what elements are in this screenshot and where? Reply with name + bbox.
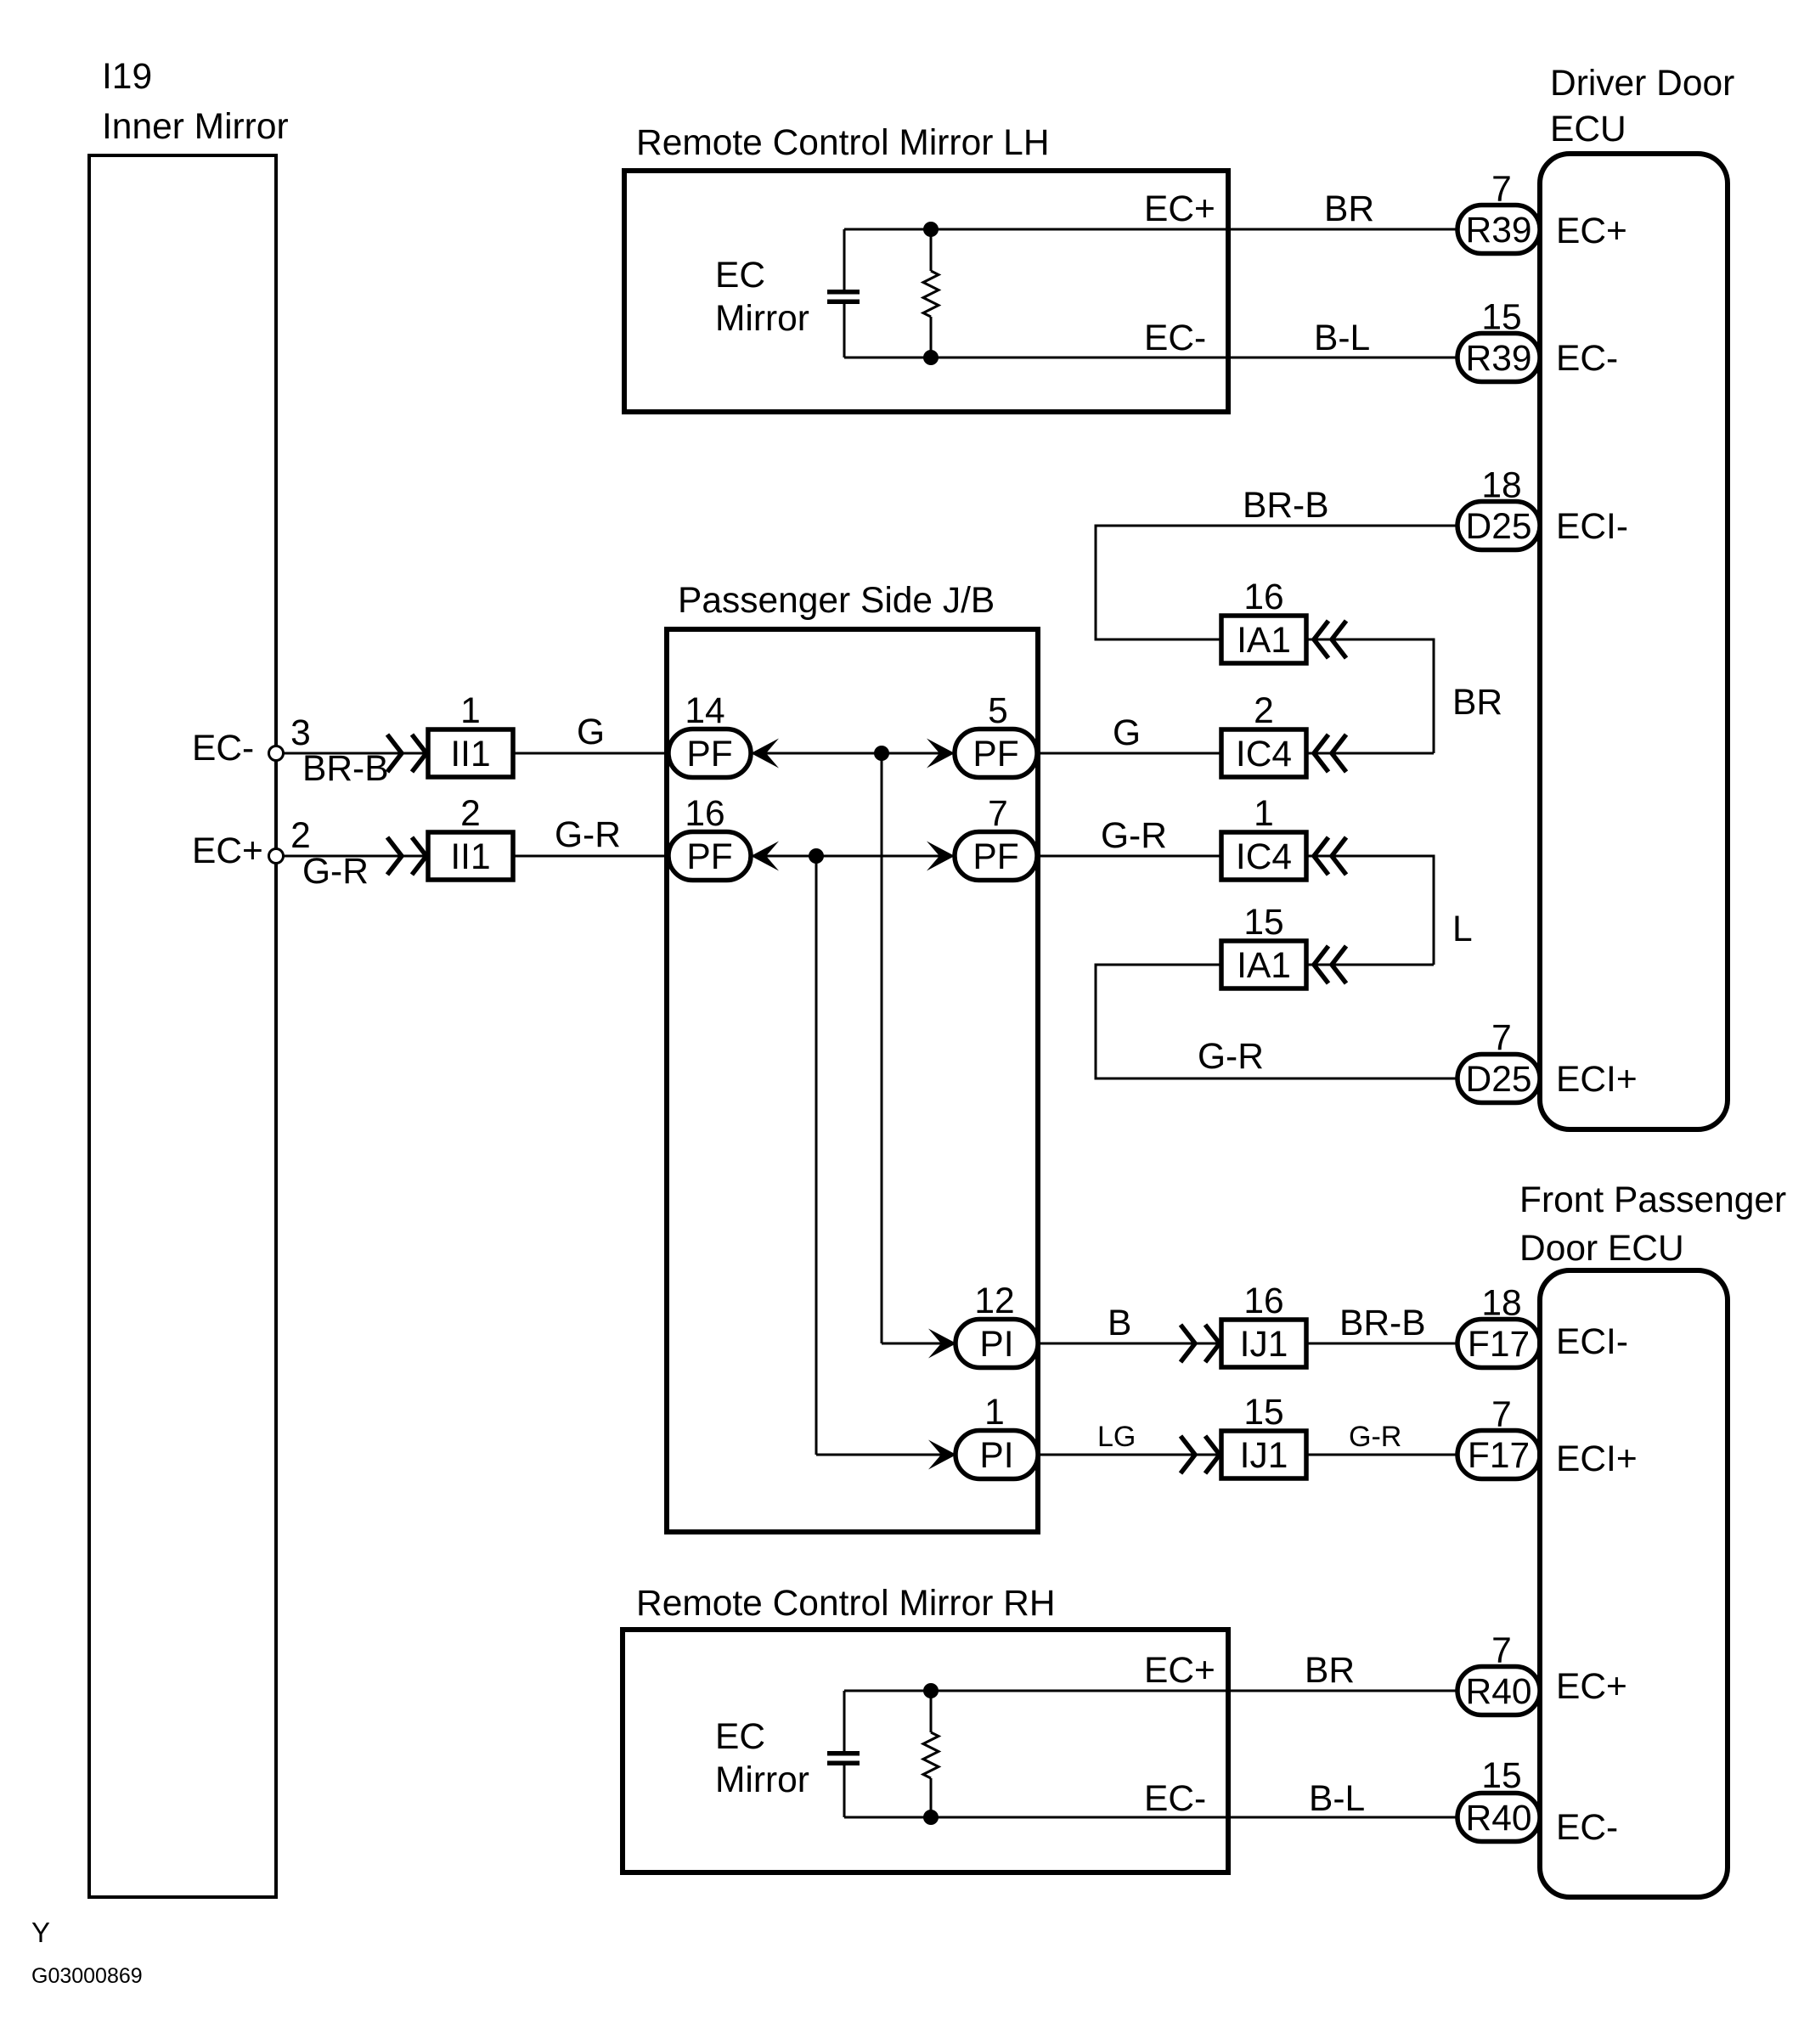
chevron IA1 pin 16 <box>1314 621 1346 658</box>
junction G wire <box>874 746 889 761</box>
wire EC+ LH to R39 pin 7 <box>844 228 1457 231</box>
wire PF16 to PF7 <box>751 855 955 858</box>
svg-text:EC+: EC+ <box>1144 189 1215 229</box>
connector F17 pin 18 <box>1457 1320 1540 1368</box>
wire junction G down to PI pin 12 <box>881 753 883 1343</box>
svg-text:Passenger Side J/B: Passenger Side J/B <box>678 581 995 621</box>
connector F17 pin 7 <box>1457 1431 1540 1479</box>
svg-text:15: 15 <box>1481 1756 1521 1796</box>
chevron IC4 pin 1 <box>1314 837 1346 875</box>
svg-text:Driver Door: Driver Door <box>1550 64 1734 104</box>
chevron II1 pin 1 <box>387 735 426 772</box>
chevron IC4 pin 2 <box>1314 735 1346 772</box>
inner mirror I19 box <box>89 155 276 1897</box>
svg-text:II1: II1 <box>450 735 490 774</box>
svg-text:B: B <box>1108 1304 1131 1343</box>
arrow at PF pin 7 <box>927 842 955 871</box>
svg-text:G-R: G-R <box>555 815 621 855</box>
connector II1 pin 1 <box>428 729 513 777</box>
wire IC4 pin 2 right <box>1306 752 1434 755</box>
wire EC- LH to R39 pin 15 <box>844 357 1457 359</box>
connector D25 pin 7 <box>1457 1055 1540 1103</box>
wire L from IC4 pin 1 to IA1 pin 15 <box>1306 856 1434 965</box>
junction LH EC+ <box>923 222 939 237</box>
svg-text:EC-: EC- <box>1556 1808 1618 1848</box>
svg-text:14: 14 <box>685 691 724 731</box>
svg-text:G-R: G-R <box>1349 1421 1401 1453</box>
connector R40 pin 7 <box>1457 1667 1540 1715</box>
wire to PI pin 12 <box>882 1343 956 1345</box>
connector IC4 pin 2 <box>1221 729 1306 777</box>
junction RH EC- <box>923 1810 939 1825</box>
chevron II1 pin 2 <box>387 837 426 875</box>
svg-text:IA1: IA1 <box>1237 621 1291 661</box>
connector PF pin 7 <box>955 832 1037 881</box>
svg-text:EC-: EC- <box>192 729 254 769</box>
capacitor C LH leads <box>843 229 846 290</box>
wire EC- inner mirror to PF pin 14 <box>284 752 668 755</box>
svg-text:EC+: EC+ <box>1556 211 1627 251</box>
wire junction G-R down to PI pin 1 <box>815 856 818 1455</box>
connector PI pin 1 <box>956 1431 1038 1479</box>
svg-text:B-L: B-L <box>1309 1779 1365 1819</box>
chevron IJ1 pin 16 <box>1181 1325 1220 1362</box>
connector IJ1 pin 16 <box>1221 1320 1306 1367</box>
passenger side J/B box <box>667 629 1038 1532</box>
svg-text:G: G <box>1113 713 1141 753</box>
capacitor C RH leads <box>843 1691 846 1751</box>
wire G-R PF7 to IC4 pin 1 <box>1037 855 1221 858</box>
svg-text:Remote Control Mirror RH: Remote Control Mirror RH <box>636 1584 1056 1624</box>
capacitor C RH plates <box>827 1751 860 1756</box>
svg-text:Y: Y <box>31 1917 50 1948</box>
svg-text:16: 16 <box>685 794 724 834</box>
svg-text:1: 1 <box>1254 794 1274 834</box>
svg-text:EC: EC <box>715 1717 765 1757</box>
capacitor C LH plates <box>827 290 860 295</box>
arrow at PI pin 12 <box>928 1329 956 1359</box>
svg-text:I19: I19 <box>102 57 152 97</box>
connector PF pin 16 <box>668 832 751 881</box>
wire G-R IJ1 to F17 pin 7 <box>1306 1454 1457 1456</box>
svg-text:1: 1 <box>460 691 481 731</box>
svg-text:PI: PI <box>979 1325 1013 1365</box>
svg-text:PF: PF <box>972 735 1018 774</box>
svg-text:G-R: G-R <box>1198 1037 1264 1077</box>
svg-text:IC4: IC4 <box>1236 837 1292 877</box>
svg-text:LG: LG <box>1097 1421 1136 1453</box>
connector II1 pin 2 <box>428 832 513 880</box>
svg-text:BR-B: BR-B <box>1243 486 1329 526</box>
svg-text:PI: PI <box>979 1436 1013 1476</box>
chevron IA1 pin 15 <box>1314 946 1346 983</box>
svg-text:IC4: IC4 <box>1236 735 1292 774</box>
svg-text:PF: PF <box>972 837 1018 877</box>
wire EC+ RH to R40 pin 7 <box>844 1690 1457 1692</box>
connector R39 pin 15 <box>1457 334 1540 382</box>
junction G-R wire <box>809 848 824 864</box>
svg-text:B-L: B-L <box>1314 318 1370 358</box>
connector R39 pin 7 <box>1457 206 1540 254</box>
svg-text:G03000869: G03000869 <box>31 1964 143 1988</box>
connector IA1 pin 15 <box>1221 941 1306 988</box>
svg-text:3: 3 <box>290 713 311 753</box>
svg-text:ECI+: ECI+ <box>1556 1439 1638 1479</box>
connector R40 pin 15 <box>1457 1793 1540 1842</box>
wire G-R from IA1 pin 15 to D25 pin 7 <box>1096 965 1457 1078</box>
svg-text:Door ECU: Door ECU <box>1519 1229 1684 1269</box>
wire LG PI1 to IJ1 pin 15 <box>1037 1454 1221 1456</box>
svg-text:Remote Control Mirror LH: Remote Control Mirror LH <box>636 123 1050 163</box>
arrow at PI pin 1 <box>928 1440 956 1470</box>
svg-text:EC+: EC+ <box>1556 1667 1627 1707</box>
svg-text:L: L <box>1452 909 1473 949</box>
svg-text:2: 2 <box>460 794 481 834</box>
svg-text:5: 5 <box>988 691 1008 731</box>
connector IC4 pin 1 <box>1221 832 1306 880</box>
driver door ECU box <box>1540 154 1728 1129</box>
svg-text:Inner Mirror: Inner Mirror <box>102 107 289 147</box>
wire BR-B IJ1 to F17 pin 18 <box>1306 1343 1457 1345</box>
resistor R LH <box>930 229 933 271</box>
svg-text:IJ1: IJ1 <box>1240 1325 1288 1365</box>
svg-text:PF: PF <box>686 735 732 774</box>
remote control mirror RH box <box>623 1630 1228 1872</box>
node EC- open circle <box>269 746 284 761</box>
arrow at PF pin 16 <box>751 842 779 871</box>
node EC+ open circle <box>269 849 284 864</box>
arrow at PF pin 14 <box>751 739 779 769</box>
connector PF pin 14 <box>668 729 751 778</box>
connector D25 pin 18 <box>1457 502 1540 550</box>
wire B PI12 to IJ1 pin 16 <box>1037 1343 1221 1345</box>
svg-text:R40: R40 <box>1466 1799 1532 1838</box>
wire BR-B from D25 pin 18 to IA1 pin 16 <box>1096 526 1457 639</box>
svg-text:1: 1 <box>984 1393 1005 1433</box>
resistor R RH <box>930 1691 933 1732</box>
svg-text:D25: D25 <box>1466 507 1532 547</box>
svg-text:EC-: EC- <box>1556 339 1618 379</box>
wire BR from IA1 pin 16 to IC4 pin 2 <box>1306 639 1434 753</box>
svg-text:EC-: EC- <box>1144 1779 1206 1819</box>
remote control mirror LH box <box>624 171 1228 412</box>
svg-text:ECI+: ECI+ <box>1556 1060 1638 1100</box>
arrow at PF pin 5 <box>927 739 955 769</box>
svg-text:PF: PF <box>686 837 732 877</box>
front passenger door ECU box <box>1540 1270 1728 1897</box>
svg-text:IJ1: IJ1 <box>1240 1436 1288 1476</box>
wire to PI pin 1 <box>816 1454 956 1456</box>
svg-text:F17: F17 <box>1468 1436 1530 1476</box>
svg-text:G: G <box>577 712 605 752</box>
svg-text:Front Passenger: Front Passenger <box>1519 1180 1786 1220</box>
svg-text:BR: BR <box>1324 189 1374 229</box>
svg-text:G-R: G-R <box>302 852 369 892</box>
svg-text:7: 7 <box>988 794 1008 834</box>
svg-text:2: 2 <box>290 816 311 856</box>
svg-text:BR: BR <box>1452 683 1502 723</box>
svg-text:ECI-: ECI- <box>1556 1322 1628 1362</box>
svg-text:Mirror: Mirror <box>715 1760 809 1800</box>
connector IJ1 pin 15 <box>1221 1431 1306 1478</box>
chevron IJ1 pin 15 <box>1181 1436 1220 1473</box>
svg-text:EC+: EC+ <box>192 831 263 871</box>
svg-text:16: 16 <box>1243 1281 1283 1321</box>
svg-text:Mirror: Mirror <box>715 299 809 339</box>
svg-text:16: 16 <box>1243 577 1283 617</box>
svg-text:15: 15 <box>1243 1393 1283 1433</box>
svg-text:BR-B: BR-B <box>302 749 389 789</box>
svg-text:EC+: EC+ <box>1144 1651 1215 1691</box>
wire EC- RH to R40 pin 15 <box>844 1816 1457 1819</box>
svg-text:F17: F17 <box>1468 1325 1530 1365</box>
svg-text:IA1: IA1 <box>1237 946 1291 986</box>
svg-text:G-R: G-R <box>1101 816 1167 856</box>
connector PF pin 5 <box>955 729 1037 778</box>
svg-text:15: 15 <box>1243 903 1283 943</box>
svg-text:II1: II1 <box>450 837 490 877</box>
junction RH EC+ <box>923 1683 939 1698</box>
connector PI pin 12 <box>956 1320 1038 1368</box>
wire EC+ inner mirror to PF pin 16 <box>284 855 668 858</box>
svg-text:D25: D25 <box>1466 1060 1532 1100</box>
svg-text:BR-B: BR-B <box>1339 1304 1426 1343</box>
junction LH EC- <box>923 350 939 365</box>
svg-text:ECU: ECU <box>1550 110 1626 149</box>
wire G PF5 to IC4 pin 2 <box>1037 752 1221 755</box>
svg-text:ECI-: ECI- <box>1556 507 1628 547</box>
svg-text:EC-: EC- <box>1144 318 1206 358</box>
svg-text:R39: R39 <box>1466 339 1532 379</box>
svg-text:2: 2 <box>1254 691 1274 731</box>
wire PF14 to PF5 <box>751 752 955 755</box>
svg-text:12: 12 <box>974 1281 1014 1321</box>
connector IA1 pin 16 <box>1221 616 1306 663</box>
svg-text:EC: EC <box>715 256 765 296</box>
svg-text:R39: R39 <box>1466 211 1532 251</box>
wire IA1 pin 15 right <box>1306 964 1434 966</box>
svg-text:R40: R40 <box>1466 1672 1532 1712</box>
svg-text:BR: BR <box>1305 1651 1355 1691</box>
